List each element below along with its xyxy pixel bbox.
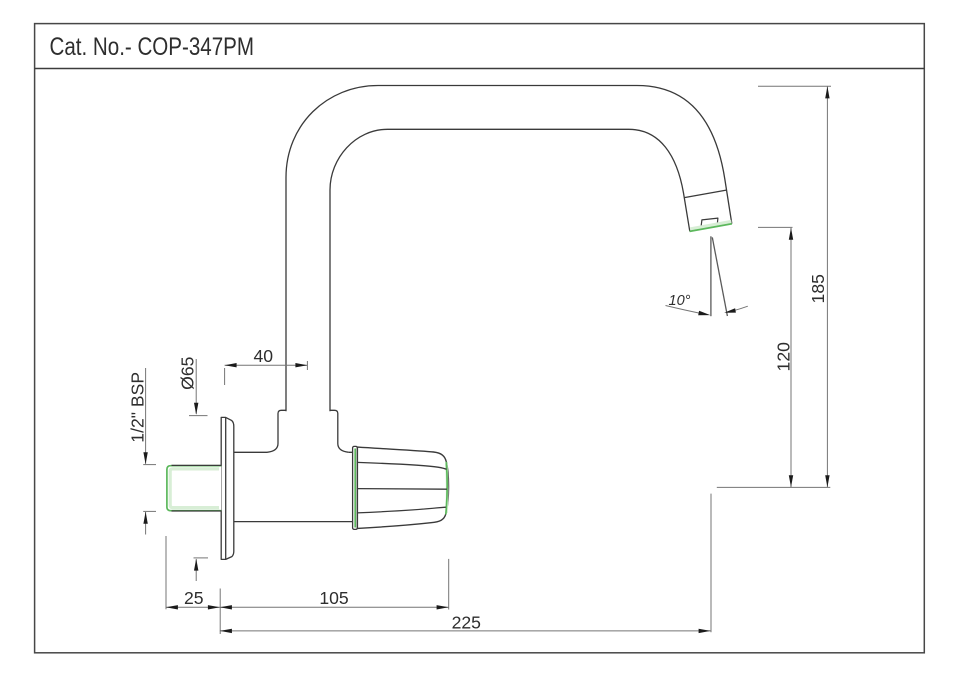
knob flute lines bbox=[357, 462, 447, 513]
Ø65 arrows bbox=[194, 403, 198, 415]
water stream lines bbox=[710, 236, 712, 316]
svg-text:25: 25 bbox=[184, 588, 204, 608]
svg-text:185: 185 bbox=[808, 274, 828, 304]
aerator notch bbox=[701, 218, 718, 226]
svg-text:Ø65: Ø65 bbox=[177, 356, 197, 389]
40 arrows bbox=[225, 363, 237, 367]
dimension Ø65: lines bbox=[195, 359, 197, 414]
svg-text:120: 120 bbox=[774, 342, 794, 372]
handle ring bbox=[353, 446, 358, 529]
outlet edge (green) bbox=[690, 224, 732, 232]
225 arrows bbox=[220, 629, 232, 633]
dimension 40: lines bbox=[225, 364, 308, 366]
dimension 105: lines bbox=[220, 606, 449, 608]
riser connector bbox=[267, 410, 349, 452]
outlet edge glow bbox=[690, 221, 731, 229]
spout joint line bbox=[684, 190, 726, 198]
spout tube bbox=[286, 86, 732, 412]
svg-text:40: 40 bbox=[254, 346, 274, 366]
dimension 25: lines bbox=[166, 606, 220, 608]
inlet shank (green) bbox=[167, 465, 222, 511]
120 arrows bbox=[789, 228, 793, 240]
svg-text:105: 105 bbox=[319, 588, 349, 608]
dimension 1/2" BSP: lines bbox=[145, 368, 147, 464]
wall flange bbox=[221, 417, 234, 559]
svg-text:1/2" BSP: 1/2" BSP bbox=[128, 372, 148, 443]
dimensions group bbox=[128, 86, 831, 634]
counter level line bbox=[717, 486, 831, 488]
svg-text:10°: 10° bbox=[669, 293, 691, 309]
185 arrows bbox=[825, 86, 829, 98]
10° arrows bbox=[698, 311, 710, 316]
dimension 225: lines bbox=[220, 630, 711, 632]
1/2" BSP arrows bbox=[143, 452, 147, 464]
svg-text:225: 225 bbox=[452, 613, 482, 633]
25 arrows bbox=[166, 605, 178, 609]
105 arrows bbox=[220, 605, 232, 609]
arrowheads bbox=[143, 86, 829, 633]
angle dimension 10°: leaders bbox=[666, 306, 701, 314]
dimension 120: lines bbox=[758, 226, 793, 228]
valve body bbox=[234, 452, 354, 521]
svg-text:Cat. No.- COP-347PM: Cat. No.- COP-347PM bbox=[50, 33, 255, 61]
handle knob bbox=[357, 447, 449, 528]
dimension 185: lines bbox=[758, 85, 831, 87]
